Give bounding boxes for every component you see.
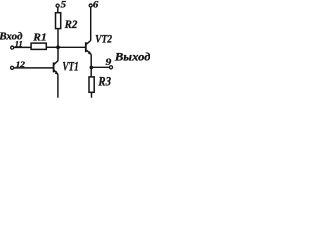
- resistor R2: [56, 13, 61, 29]
- svg-text:Выход: Выход: [114, 52, 150, 64]
- svg-text:VT1: VT1: [62, 58, 78, 73]
- terminal 9: [109, 66, 112, 69]
- resistor R1: [31, 43, 46, 49]
- wire VT1 emitter down: [57, 74, 59, 98]
- wire terminal 6 to VT2 collector: [90, 7, 92, 40]
- node A junction dot: [56, 45, 60, 49]
- wire R2 to node A: [57, 29, 59, 48]
- transistor VT1: [54, 61, 59, 75]
- terminal 11: [11, 46, 14, 49]
- svg-text:R1: R1: [32, 32, 46, 44]
- terminal 12: [11, 66, 14, 69]
- wire terminal 5 to R2: [57, 8, 59, 13]
- svg-text:6: 6: [93, 1, 99, 11]
- wire output node to terminal 9: [91, 66, 109, 68]
- transistor VT2: [86, 41, 92, 55]
- svg-text:9: 9: [106, 58, 112, 68]
- wire input 11 to R1: [14, 46, 31, 48]
- svg-text:5: 5: [61, 1, 67, 11]
- wire node A to VT2 base: [58, 46, 85, 48]
- terminal 5: [56, 4, 59, 7]
- terminal 6: [89, 4, 92, 7]
- wire node A down to VT1 collector: [57, 47, 59, 61]
- svg-text:R2: R2: [64, 19, 78, 31]
- svg-text:VT2: VT2: [95, 34, 112, 46]
- svg-text:R3: R3: [98, 75, 111, 89]
- output node junction dot: [90, 66, 94, 70]
- wire R3 down: [91, 93, 93, 98]
- wire R1 to node A: [47, 46, 58, 48]
- resistor R3: [89, 77, 94, 92]
- wire VT2 emitter down to R3: [90, 54, 92, 76]
- wire input 12 to VT1 base: [14, 67, 53, 69]
